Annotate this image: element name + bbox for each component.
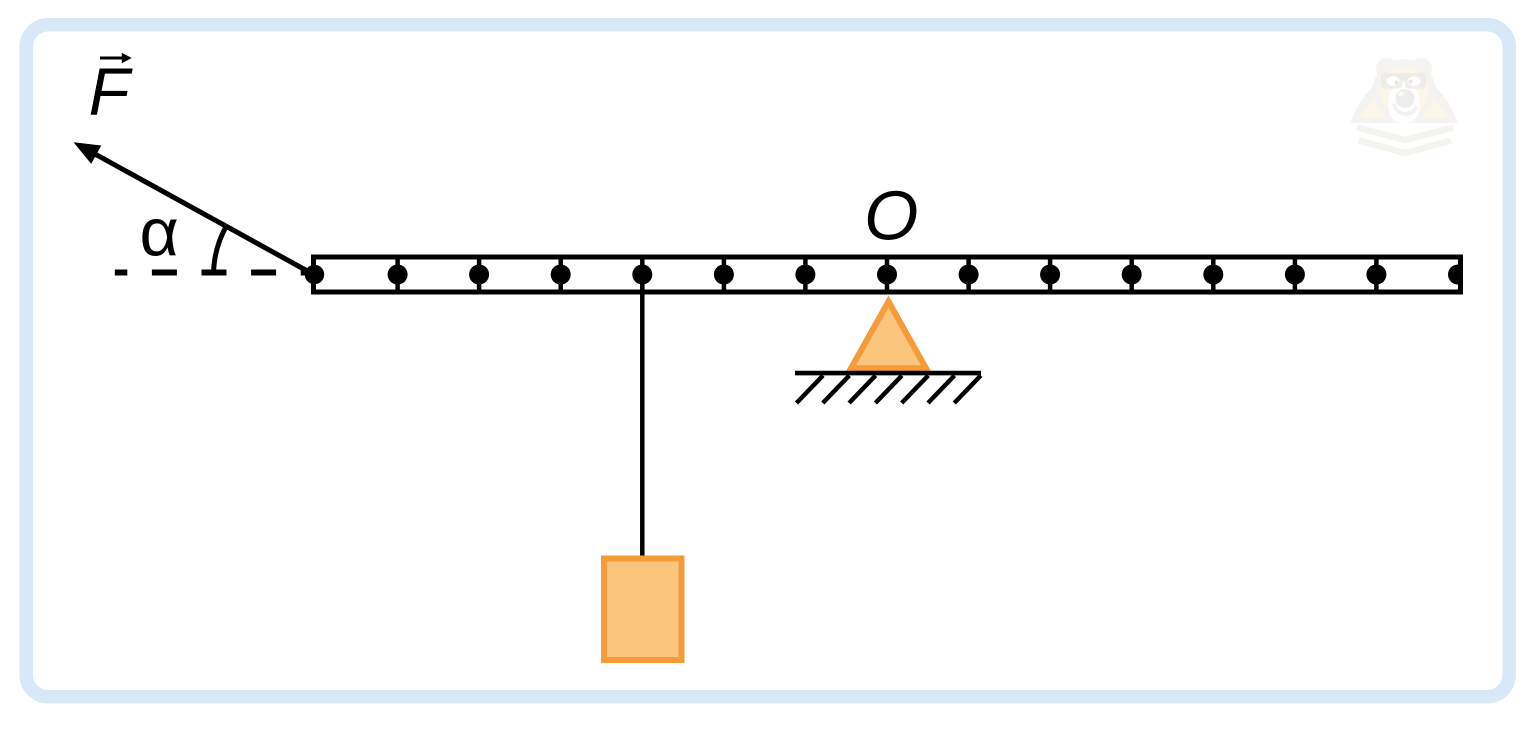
force line [91, 152, 316, 276]
muzzle [1388, 83, 1420, 125]
force arrowhead [74, 142, 102, 164]
nose [1396, 89, 1415, 108]
body [1350, 78, 1458, 123]
watermark logo (faint bear with glasses over open book) [1350, 58, 1458, 153]
dashed horizontal reference line [115, 270, 318, 276]
ground line [795, 371, 981, 376]
glasses [1381, 73, 1426, 89]
svg-text:F: F [89, 54, 134, 129]
ground hatching [797, 376, 981, 404]
string [640, 275, 645, 558]
hanging weight [604, 559, 682, 661]
angle arc [214, 226, 227, 275]
ears [1376, 58, 1398, 80]
fulcrum triangle [851, 302, 926, 369]
head [1373, 59, 1435, 121]
beam dots [305, 265, 1468, 285]
beam dividers [398, 260, 1377, 290]
svg-text:α: α [140, 195, 179, 271]
smile [1394, 104, 1417, 114]
lever beam body [314, 257, 1461, 292]
open book [1357, 128, 1453, 141]
svg-text:O: O [864, 177, 918, 255]
first dot (pivot of force) [305, 265, 324, 284]
